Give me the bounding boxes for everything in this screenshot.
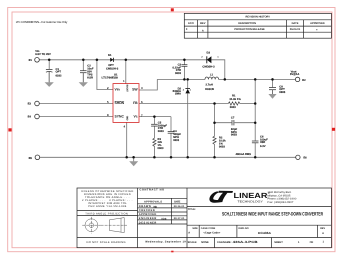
junction D3 drop / Vout node — [224, 78, 227, 81]
wire: Vc chain B bottom — [170, 133, 172, 157]
diode D3 pin numbers — [201, 56, 219, 59]
junction C1/Vin rail — [48, 59, 51, 62]
svg-text:0603: 0603 — [231, 134, 237, 137]
junction D2 cathode / SW node — [186, 78, 189, 81]
svg-text:480mA RMS: 480mA RMS — [236, 153, 252, 156]
wire: D2 catch vertical bottom — [187, 93, 189, 157]
ground C2 — [79, 73, 88, 87]
svg-text:L1: L1 — [210, 74, 214, 77]
svg-text:CAGE CODE: CAGE CODE — [201, 227, 216, 230]
confidential note — [16, 20, 68, 24]
capacitor C3 — [181, 65, 187, 67]
IC U1 LT1766ES8 regulator box — [113, 84, 139, 123]
svg-text:TECHNOLOGY: TECHNOLOGY — [237, 199, 263, 203]
svg-text:Vc: Vc — [133, 114, 137, 118]
wire: C3 leads — [183, 60, 185, 65]
svg-text:OPT: OPT — [56, 71, 62, 74]
wire: SW pin stub — [139, 79, 157, 90]
approvals table text — [139, 188, 186, 243]
wire: Vc chain A mid — [153, 126, 155, 138]
third angle projection symbol — [82, 217, 127, 234]
svg-text:LTC CONFIDENTIAL - For Custome: LTC CONFIDENTIAL - For Customer Use Only — [16, 20, 68, 24]
svg-text:08-16-01: 08-16-01 — [174, 205, 185, 208]
svg-text:6.3V: 6.3V — [260, 145, 266, 148]
junction C7 right / Vout riser — [254, 121, 257, 124]
wire: C8 leads — [272, 79, 274, 87]
junction Vout riser — [254, 78, 257, 81]
resistor R1 — [228, 102, 240, 105]
terminal E5 — [35, 155, 40, 160]
svg-text:PRODUCTION RELEASE: PRODUCTION RELEASE — [234, 28, 265, 31]
U1 pin names — [115, 85, 139, 121]
svg-text:Wednesday, September 19: Wednesday, September 19 — [145, 241, 186, 244]
svg-text:THIRD ANGLE PROJECTION: THIRD ANGLE PROJECTION — [85, 213, 128, 216]
svg-text:08-17-01: 08-17-01 — [174, 217, 185, 220]
title block frame — [77, 188, 331, 248]
svg-text:REV: REV — [200, 22, 206, 25]
svg-text:GND: GND — [126, 116, 129, 121]
junction Vin pin drop — [96, 59, 99, 62]
U1 pin numbers — [107, 79, 143, 129]
svg-text:Vin: Vin — [115, 87, 120, 91]
capacitor C2 — [80, 71, 87, 73]
diode D2 — [185, 89, 190, 94]
svg-text:0603: 0603 — [158, 147, 164, 150]
wire: C1 top lead — [48, 60, 50, 70]
svg-text:REVISION HISTORY: REVISION HISTORY — [246, 16, 271, 19]
svg-text:06-04-01: 06-04-01 — [290, 28, 301, 31]
svg-text:SCH,LT1766ES8 WIDE INPUT RANGE: SCH,LT1766ES8 WIDE INPUT RANGE STEP-DOWN… — [222, 212, 323, 218]
svg-text:SYNC: SYNC — [115, 114, 125, 118]
capacitor C7 — [232, 120, 234, 125]
wire: SW rail left of L1 — [157, 78, 205, 80]
capacitor C1 — [46, 69, 53, 72]
wire: C7 line right — [234, 122, 255, 124]
svg-text:CONTRACT NO: CONTRACT NO — [140, 188, 165, 191]
svg-text:SW: SW — [132, 87, 138, 91]
svg-text:MD: MD — [154, 206, 158, 209]
svg-text:0805: 0805 — [279, 91, 285, 94]
wire: R2 bottom to ground — [214, 144, 216, 157]
svg-text:DWG NO: DWG NO — [239, 227, 249, 230]
svg-text:A: A — [188, 232, 190, 235]
svg-text:X5R: X5R — [260, 141, 265, 144]
svg-text:D1: D1 — [108, 54, 112, 57]
svg-text:ECO: ECO — [188, 22, 194, 25]
svg-text:DATE: DATE — [292, 22, 299, 25]
wire: Vc chain A bottom — [153, 146, 155, 158]
terminal E3 — [35, 101, 40, 106]
svg-text:31.6k 1%: 31.6k 1% — [229, 98, 241, 101]
junction BOOST riser — [125, 59, 128, 62]
svg-text:2.7uH: 2.7uH — [206, 84, 213, 87]
junction C3 bottom / SW node — [183, 78, 186, 81]
wire: Vc chain A top — [153, 117, 155, 125]
terminal E4 — [35, 114, 40, 119]
svg-text:SMA: SMA — [175, 93, 181, 96]
wire: Vin drop to pin 2 — [97, 60, 113, 90]
svg-text:E3: E3 — [28, 103, 32, 106]
svg-text:DC436A: DC436A — [258, 231, 272, 235]
junction C7 left — [213, 121, 216, 124]
address — [267, 191, 297, 204]
svg-text:Fax: (408)434-0507: Fax: (408)434-0507 — [267, 201, 294, 204]
svg-text:DO NOT SCALE DRAWING: DO NOT SCALE DRAWING — [87, 241, 126, 244]
tolerance notes — [81, 190, 133, 244]
svg-text:OF: OF — [310, 241, 314, 244]
svg-text:6.5V TO 25V: 6.5V TO 25V — [35, 53, 51, 56]
svg-text:CHECKED: CHECKED — [139, 209, 155, 212]
junction R3 bottom / ground rail — [153, 156, 156, 159]
resistor R3 — [153, 138, 156, 146]
svg-text:APPROVALS: APPROVALS — [144, 200, 162, 203]
svg-text:E2: E2 — [302, 79, 306, 82]
title and drawing info — [188, 208, 326, 244]
svg-text:SCALE:: SCALE: — [188, 241, 198, 244]
svg-text:KSR: KSR — [87, 76, 93, 79]
revision history table — [184, 13, 331, 38]
svg-text:APPROVED: APPROVED — [139, 213, 157, 216]
svg-text:5V@1A: 5V@1A — [290, 73, 299, 76]
wire: D2 catch vertical top — [187, 79, 189, 88]
svg-text:E5: E5 — [29, 157, 33, 160]
diode D3 — [207, 56, 212, 63]
inductor L1 — [205, 77, 219, 79]
diode D1 — [110, 58, 113, 62]
svg-text:A: A — [322, 232, 324, 235]
capacitor C4 — [168, 131, 175, 133]
junction C6 bottom / ground rail — [254, 156, 257, 159]
terminal E2 — [295, 77, 299, 81]
svg-text:SHEET: SHEET — [274, 241, 283, 244]
wire: boost rail after D1 — [113, 59, 206, 61]
wire: C6 bottom — [254, 143, 256, 157]
junction R2 bottom / ground rail — [213, 156, 216, 159]
junction C4 bottom / ground rail — [170, 156, 173, 159]
wire: C7 line — [215, 122, 232, 124]
junction D2 anode / ground rail — [186, 156, 189, 159]
ground C1 — [45, 72, 54, 87]
junction C3 top — [183, 59, 186, 62]
svg-text:FILENAME:: FILENAME: — [217, 241, 231, 244]
svg-text:0603: 0603 — [158, 130, 164, 133]
wire: GND pin drop — [126, 122, 128, 157]
svg-text:REV: REV — [320, 227, 325, 230]
junction GND pin / ground rail — [125, 156, 128, 159]
wire: C2 bottom lead — [82, 73, 84, 82]
LINEAR TECHNOLOGY logotype — [234, 191, 270, 203]
diode D2 pin numbers — [183, 89, 192, 92]
wire: FB line — [139, 103, 228, 105]
terminal E1 — [35, 58, 40, 63]
svg-text:E6: E6 — [303, 156, 307, 159]
svg-text:DATE: DATE — [174, 200, 180, 203]
svg-text:DESIGNER: DESIGNER — [139, 221, 157, 224]
wire: Vc line — [139, 116, 171, 118]
wire: E4 to SYNC — [39, 116, 113, 118]
svg-text:0603: 0603 — [219, 145, 225, 148]
svg-text:DESCRIPTION: DESCRIPTION — [238, 22, 256, 25]
wire: boost pin riser — [125, 60, 127, 84]
svg-text:0603: 0603 — [230, 106, 236, 109]
wire: Vout rail right of L1 — [219, 78, 296, 80]
svg-text:D3: D3 — [207, 51, 211, 54]
svg-text:C7: C7 — [231, 117, 235, 120]
junction FB divider top — [213, 102, 216, 105]
wire: D3 anode to corner, down to Vout rail — [212, 60, 225, 80]
svg-text:TITLE:: TITLE: — [188, 208, 196, 211]
ground C8 — [268, 90, 276, 99]
wire: C2 top lead — [82, 60, 84, 71]
resistor R2 — [213, 136, 216, 144]
svg-text:NONE: NONE — [201, 241, 209, 244]
svg-text:0603: 0603 — [175, 72, 181, 75]
wire: ground rail — [40, 156, 296, 158]
capacitor C5 — [151, 124, 158, 126]
ground main rail — [129, 157, 138, 166]
svg-text:SHDN: SHDN — [115, 101, 125, 105]
junction C8 top — [271, 78, 274, 81]
capacitor C8 — [269, 88, 276, 90]
wire: E3 to SHDN — [39, 103, 113, 105]
svg-text:PER ASME Y14.5M-1994: PER ASME Y14.5M-1994 — [88, 205, 127, 208]
svg-text:436A-3.PCB: 436A-3.PCB — [233, 240, 259, 244]
svg-text:E4: E4 — [28, 116, 32, 119]
svg-text:LT1766ES8: LT1766ES8 — [102, 76, 119, 79]
svg-text:APPROVED: APPROVED — [310, 22, 325, 25]
svg-text:E1: E1 — [29, 59, 33, 62]
svg-text:KDS: KDS — [162, 218, 167, 221]
svg-text:DRAWN: DRAWN — [139, 205, 151, 208]
svg-text:CMDSH-3: CMDSH-3 — [106, 68, 119, 71]
svg-text:ENGINEER: ENGINEER — [139, 217, 157, 220]
svg-text:<Cage Code>: <Cage Code> — [203, 231, 220, 234]
wire: C1 bottom lead — [48, 72, 50, 82]
wire: FB divider vertical — [214, 104, 216, 137]
capacitor C6 — [252, 141, 259, 143]
svg-text:6032: 6032 — [56, 74, 62, 77]
wire: Vin top rail — [39, 59, 110, 61]
terminal E6 — [296, 155, 300, 159]
svg-text:CMDSH-3: CMDSH-3 — [202, 66, 215, 69]
svg-text:SIZE: SIZE — [192, 227, 198, 230]
junction Vc network — [153, 115, 156, 118]
wire: Vc chain B — [170, 117, 172, 132]
junction R1 right / Vout riser — [254, 102, 257, 105]
svg-text:A: A — [202, 30, 204, 33]
schematic black labels — [28, 50, 308, 160]
LT logo mark — [209, 191, 233, 203]
junction ground symbol / ground rail — [132, 156, 135, 159]
svg-text:0603: 0603 — [173, 139, 179, 142]
wire: Vout riser — [254, 79, 256, 140]
svg-text:D63CB: D63CB — [205, 88, 214, 91]
svg-text:BOOST: BOOST — [126, 85, 129, 93]
wire: FB line right of R1 — [240, 103, 255, 105]
svg-text:FB: FB — [133, 101, 138, 105]
label C3 — [172, 64, 181, 76]
label D2 — [173, 87, 182, 95]
junction C2/Vin rail — [82, 59, 85, 62]
